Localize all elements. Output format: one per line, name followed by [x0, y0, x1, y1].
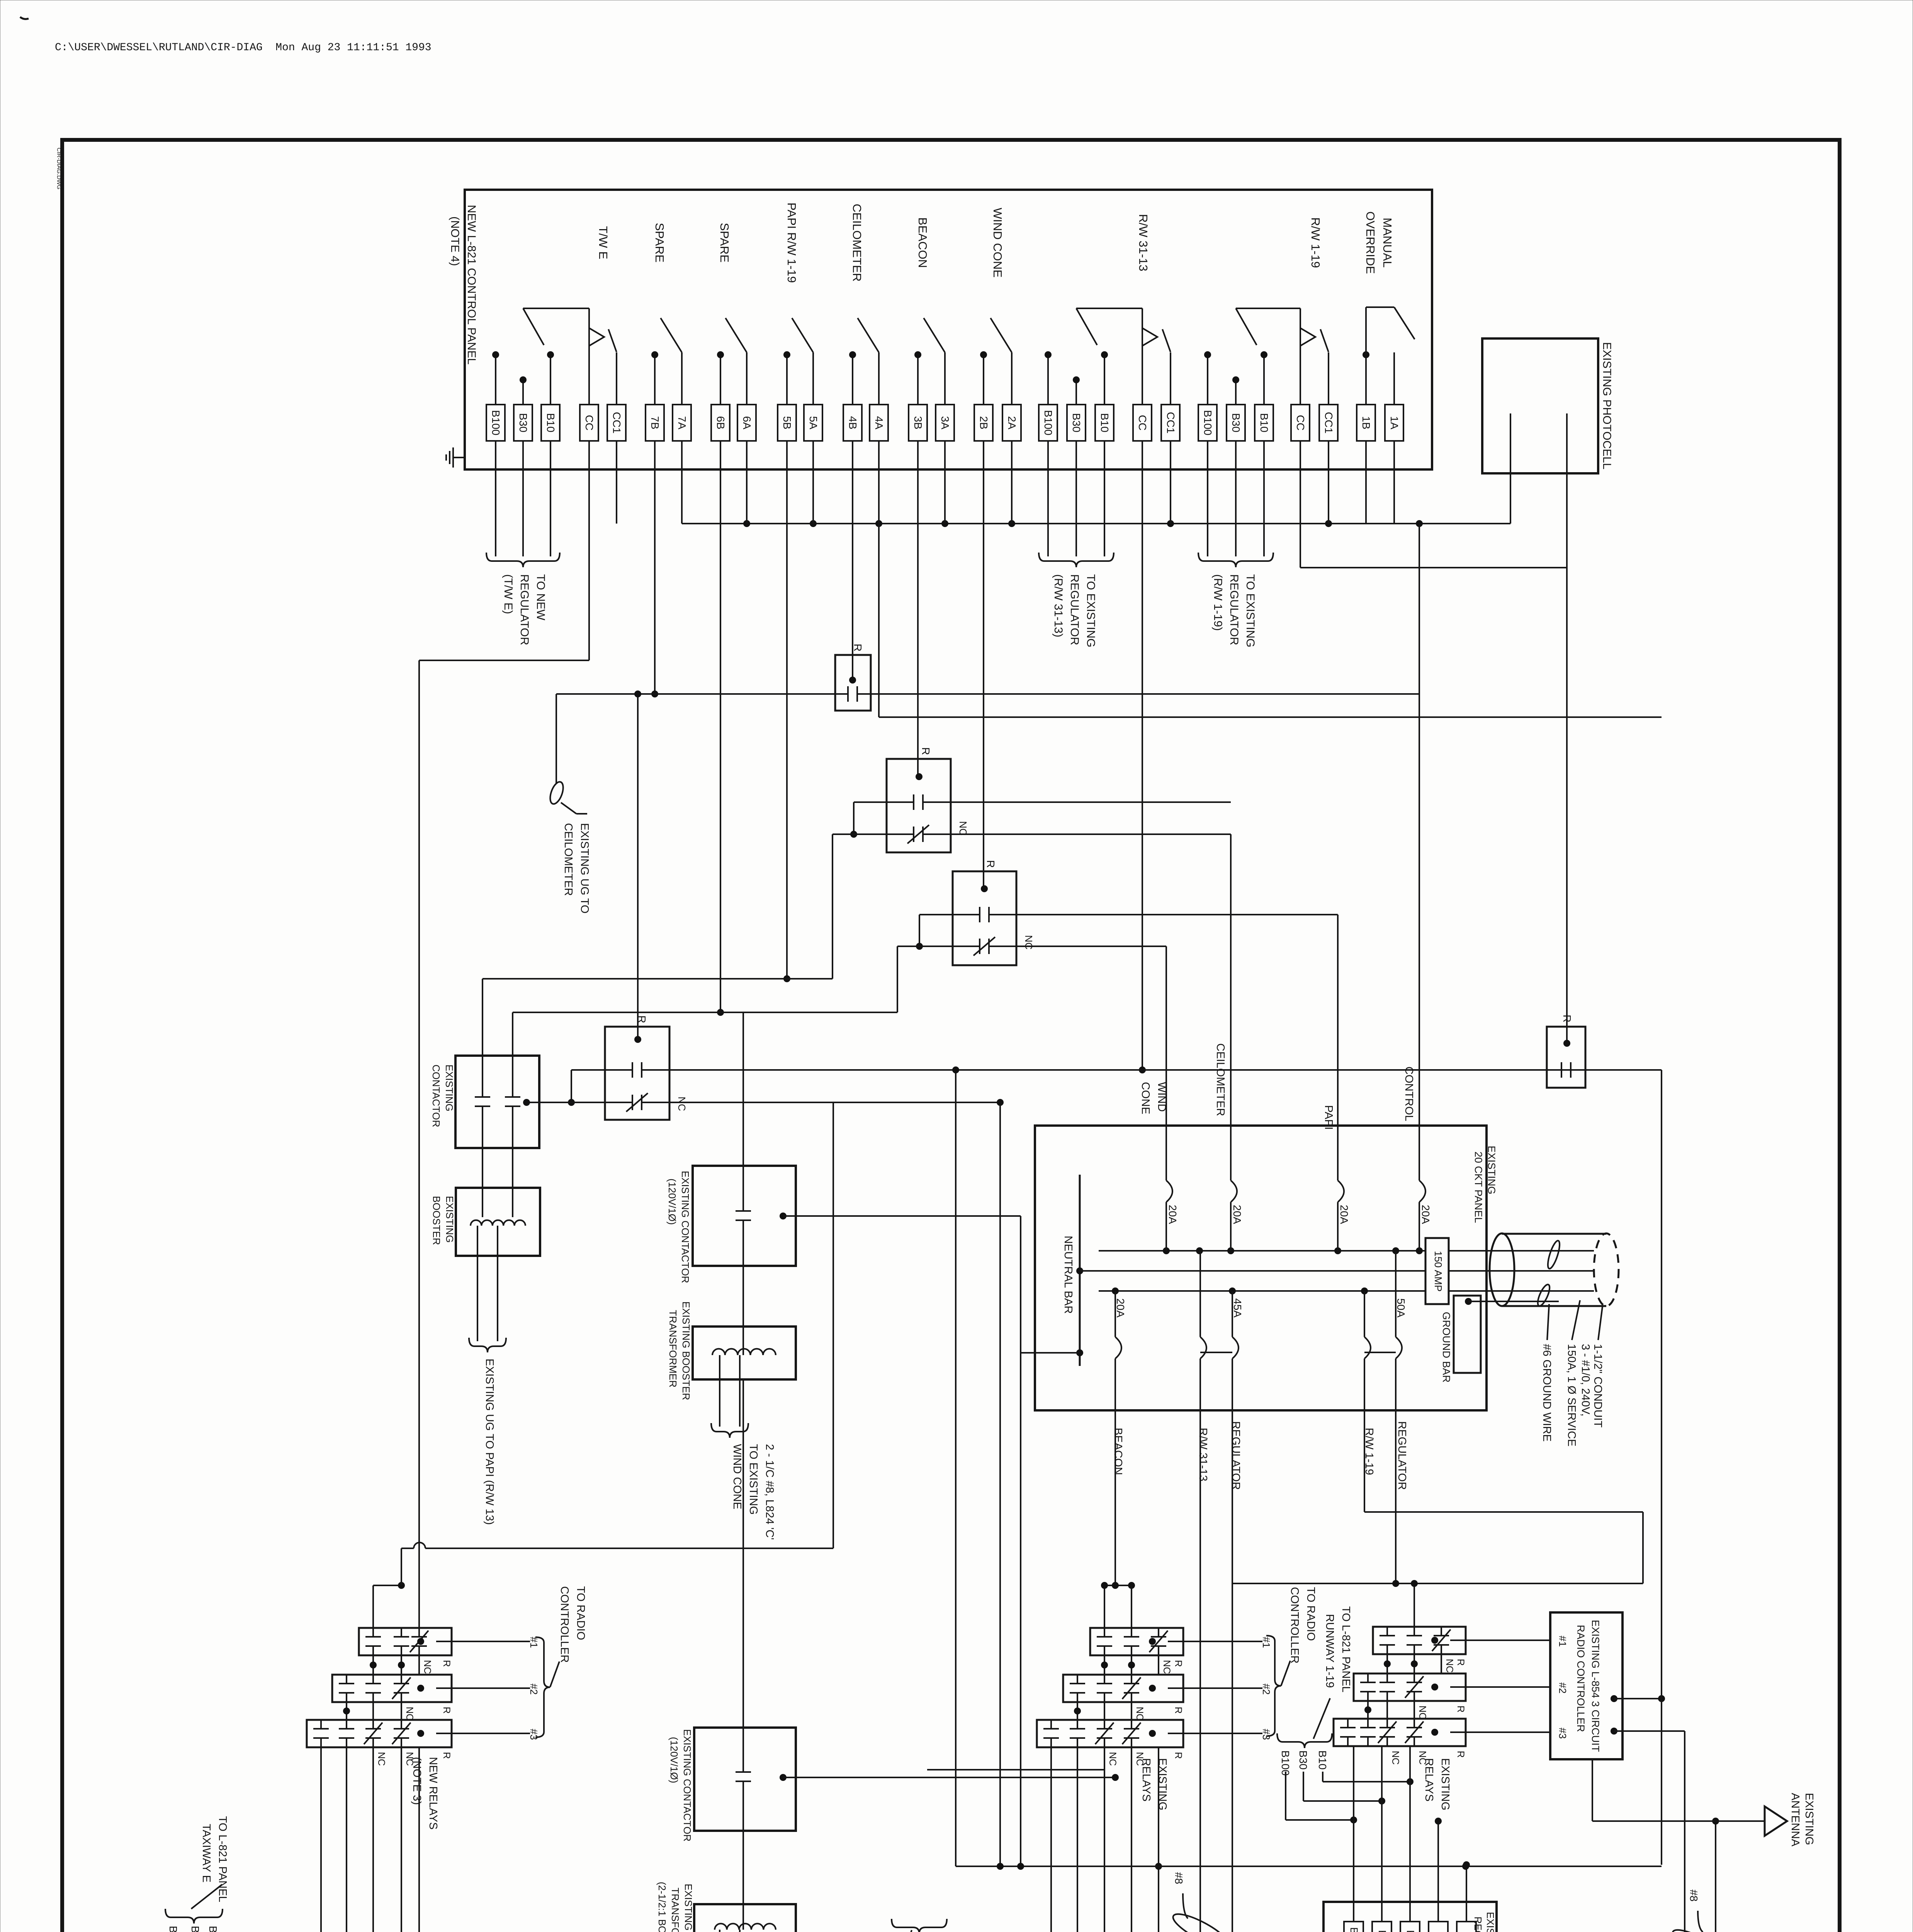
wire control from bus to panel	[1419, 524, 1420, 1180]
wire to radio #2 (c)	[1168, 1687, 1262, 1689]
svg-text:C:\USER\DWESSEL\RUTLAND\CIR-DI: C:\USER\DWESSEL\RUTLAND\CIR-DIAG Mon Aug…	[55, 42, 432, 54]
manual override pole	[1365, 307, 1367, 355]
stub x1354	[522, 380, 524, 405]
breaker feed x3674	[1419, 524, 1420, 1180]
feed H	[373, 1585, 401, 1586]
wire to contactor 120V	[742, 1012, 744, 1166]
contactor 2 contact	[742, 1728, 744, 1772]
ceilometer UG drop	[556, 694, 557, 784]
bus y2853	[669, 1102, 1000, 1103]
svg-text:3A: 3A	[939, 416, 951, 430]
terminal 2A	[1002, 405, 1021, 441]
cable brace 31-13	[1039, 553, 1114, 567]
breaker arc low x3107	[1200, 1337, 1206, 1359]
R3 NC contact	[953, 946, 980, 947]
wire N down	[418, 1747, 420, 1932]
radio antenna lead	[1592, 1759, 1593, 1821]
photocell lead to relay R5	[1566, 568, 1568, 1043]
bus A y1355	[682, 523, 1510, 524]
wire CC horizontal	[419, 660, 589, 661]
svg-text:150A, 1 Ø SERVICE: 150A, 1 Ø SERVICE	[1565, 1344, 1578, 1446]
new r2 output	[417, 1685, 424, 1692]
wire B10 31-13	[1104, 441, 1105, 556]
existing-c relay 1 box	[1090, 1628, 1183, 1655]
existing-r r2 output	[1431, 1684, 1438, 1690]
svg-text:R: R	[1173, 1752, 1184, 1759]
new stub	[372, 1702, 374, 1720]
svg-text:R: R	[1173, 1707, 1184, 1714]
wire in conduit 3	[1502, 1290, 1594, 1292]
leader conduit	[1598, 1307, 1602, 1340]
svg-text:#2: #2	[528, 1684, 540, 1695]
pointer #8 center	[1183, 1893, 1188, 1918]
booster out 2	[497, 1226, 498, 1341]
existing-r r3 output	[1431, 1729, 1438, 1736]
existing-r stub	[1414, 1654, 1415, 1673]
feed c r1 a	[1104, 1585, 1105, 1628]
terminal B30	[514, 405, 532, 441]
wire B30 1-19	[1235, 441, 1237, 556]
radio brace c	[1266, 1636, 1281, 1736]
svg-text:R: R	[441, 1660, 452, 1667]
CC stub 1-19	[1300, 308, 1301, 405]
wire contactor to neutral riser	[783, 1215, 1021, 1217]
ground bar box	[1454, 1296, 1481, 1373]
wire contactor2 to beacon wire	[783, 1777, 1115, 1778]
existing contactor box	[455, 1056, 539, 1148]
svg-text:R/W 31-13: R/W 31-13	[1137, 214, 1150, 271]
B100r drop	[1285, 1772, 1286, 1820]
relay R2 box	[887, 759, 951, 852]
svg-text:CC: CC	[1295, 415, 1306, 430]
existing L-812 regulator box	[1323, 1902, 1497, 1932]
svg-text:NC: NC	[1390, 1751, 1401, 1765]
svg-text:B10: B10	[1317, 1750, 1329, 1770]
svg-text:EXISTING BOOSTER: EXISTING BOOSTER	[680, 1301, 692, 1400]
4A tap down	[878, 524, 880, 717]
svg-text:NC: NC	[957, 821, 969, 836]
existing-r relay 2 box	[1354, 1673, 1466, 1701]
junction A-bus x2619	[1008, 520, 1015, 527]
terminal 3B	[909, 405, 927, 441]
new r3 output	[417, 1730, 424, 1737]
svg-text:CONTROL: CONTROL	[1403, 1066, 1415, 1121]
svg-text:TO NEW: TO NEW	[534, 574, 547, 621]
booster lead 2	[512, 1148, 513, 1217]
cable brace T/W E	[486, 553, 560, 567]
contactor feed 1	[482, 979, 483, 1056]
terminal B100	[1039, 405, 1057, 441]
existing contactor 120V box 2	[694, 1728, 796, 1831]
existing booster transformer 2 box	[694, 1904, 796, 1932]
R4 NO contact	[605, 1069, 632, 1071]
svg-text:(120V/1Ø): (120V/1Ø)	[668, 1737, 680, 1783]
breaker arc low x3532	[1364, 1337, 1371, 1359]
svg-text:RELAYS: RELAYS	[1140, 1758, 1152, 1801]
radio out node 2	[1611, 1728, 1617, 1735]
svg-text:MANUAL: MANUAL	[1381, 218, 1394, 267]
svg-text:4B: 4B	[847, 416, 859, 429]
wire CC1 31-13 down	[1170, 441, 1171, 524]
svg-text:B10: B10	[1405, 1930, 1416, 1932]
riser x2589	[999, 1102, 1001, 1866]
svg-text:EXISTING BOOSTER: EXISTING BOOSTER	[683, 1884, 694, 1932]
leader service	[1572, 1300, 1580, 1340]
svg-text:R: R	[1561, 1015, 1573, 1022]
R3 NC left wire	[897, 946, 953, 947]
new relay 3 box	[307, 1720, 452, 1747]
transformer 2 out 2	[739, 1930, 741, 1932]
svg-text:R: R	[852, 644, 864, 651]
wire R4 coil feed	[637, 694, 639, 1039]
svg-text:CC1: CC1	[1165, 412, 1177, 434]
svg-text:SPARE: SPARE	[653, 223, 666, 263]
cable marker #8 right	[1669, 1924, 1731, 1932]
existing contactor 120V box	[693, 1166, 796, 1266]
existing-r stub	[1386, 1701, 1388, 1719]
stub x2859	[1104, 355, 1105, 405]
terminal B30	[1067, 405, 1086, 441]
breaker arc x3463	[1338, 1180, 1344, 1202]
panel bus 3	[1099, 1290, 1425, 1292]
svg-text:6A: 6A	[741, 416, 753, 430]
svg-text:CONE: CONE	[1139, 1082, 1152, 1114]
chevron 31-13	[1142, 328, 1157, 346]
svg-text:(2-1/2:1 BOOST): (2-1/2:1 BOOST)	[656, 1882, 668, 1932]
svg-text:TO EXISTING: TO EXISTING	[747, 1444, 759, 1515]
svg-text:CONTROLLER: CONTROLLER	[1288, 1587, 1301, 1663]
terminal 7A	[673, 405, 691, 441]
stub x1865	[720, 355, 721, 405]
bus1 junction x3674	[1416, 1247, 1423, 1254]
CC1 stub	[616, 352, 617, 405]
svg-text:20 CKT PANEL: 20 CKT PANEL	[1473, 1151, 1484, 1223]
svg-text:B30: B30	[1376, 1930, 1388, 1932]
wire 1933A down	[746, 441, 748, 524]
50A breaker pole 2	[1395, 1251, 1397, 1337]
terminal N right reg	[1457, 1922, 1476, 1932]
svg-text:(R/W 1-19): (R/W 1-19)	[1211, 574, 1224, 631]
booster transformer 2 coil	[715, 1923, 776, 1930]
wire B100 31-13	[1047, 441, 1049, 556]
T/W E blade	[608, 329, 617, 352]
svg-text:EXISTING UG TO: EXISTING UG TO	[578, 823, 591, 913]
svg-text:B10: B10	[545, 413, 557, 432]
svg-text:20A: 20A	[1420, 1205, 1432, 1224]
svg-text:2A: 2A	[1006, 416, 1018, 430]
wire to radio #2 (new)	[436, 1687, 530, 1689]
svg-text:NEUTRAL BAR: NEUTRAL BAR	[1062, 1236, 1074, 1314]
R4 left link vert	[571, 1070, 572, 1102]
wire B30	[522, 441, 524, 556]
switch pole at x2619	[1011, 352, 1013, 405]
svg-text:B10: B10	[1099, 413, 1111, 432]
svg-text:7A: 7A	[676, 416, 688, 430]
R3 NO contact	[953, 914, 980, 915]
terminal B100 right reg	[1344, 1922, 1363, 1932]
wire to radio ctrl #2	[1450, 1686, 1550, 1688]
svg-text:PAPI R/W 1-19: PAPI R/W 1-19	[785, 202, 798, 283]
svg-text:EXISTING: EXISTING	[443, 1065, 455, 1111]
svg-text:B100: B100	[1042, 410, 1054, 435]
wire L-812 CC	[1437, 1821, 1439, 1922]
wire x2157 down	[832, 1102, 834, 1548]
svg-text:R: R	[1455, 1659, 1466, 1666]
R4 NC contact	[605, 1102, 632, 1103]
wire 50A pole1 down	[1364, 1410, 1365, 1512]
feed c r1 b	[1131, 1585, 1132, 1628]
svg-text:B30: B30	[517, 413, 529, 432]
wire CC long vertical to relay	[418, 660, 420, 1628]
wire r relay to L-812 x3650	[1409, 1746, 1411, 1922]
new r3 contacts	[320, 1720, 322, 1729]
existing-c r2 output	[1149, 1685, 1156, 1692]
wire r relay to L-812 x3504	[1353, 1746, 1354, 1922]
bus3 junction x3190	[1229, 1287, 1236, 1294]
service conduit	[1490, 1233, 1619, 1306]
existing-r relay 1 box	[1373, 1627, 1466, 1654]
svg-text:NC: NC	[676, 1097, 688, 1111]
wire across y4098	[1232, 1583, 1643, 1584]
svg-text:1A: 1A	[1388, 416, 1400, 430]
svg-text:(NOTE 3): (NOTE 3)	[411, 1757, 423, 1805]
breaker feed x3463	[1337, 915, 1339, 1180]
relay R1 box	[835, 655, 871, 711]
transformer feed	[742, 1266, 744, 1355]
svg-text:TO RADIO: TO RADIO	[574, 1586, 587, 1640]
R2 left link upper	[854, 801, 887, 803]
stub x2546	[983, 355, 984, 405]
existing-c r3 contacts	[1050, 1720, 1052, 1729]
svg-text:EXISTING: EXISTING	[1486, 1146, 1497, 1194]
wire c N down	[1158, 1747, 1159, 1932]
new stub	[401, 1655, 402, 1675]
terminal 4B	[843, 405, 862, 441]
pointer 31-13	[885, 1930, 912, 1932]
service wire 2	[1449, 1270, 1502, 1272]
CC1 stub 31-13	[1170, 352, 1171, 405]
svg-text:BEACON: BEACON	[916, 218, 929, 268]
existing-c r3 output	[1149, 1730, 1156, 1737]
new stub	[346, 1702, 347, 1720]
junction A-bus x2446	[941, 520, 948, 527]
panel bus 1	[1099, 1250, 1425, 1252]
T/W E chevron	[589, 328, 604, 346]
stub x2037	[786, 355, 788, 405]
wire 1A down	[1393, 441, 1395, 524]
svg-text:REGULATOR: REGULATOR	[1228, 574, 1240, 645]
svg-text:(NOTE 4): (NOTE 4)	[449, 216, 461, 266]
stub x3536	[1365, 355, 1367, 405]
svg-text:1-1/2" CONDUIT: 1-1/2" CONDUIT	[1592, 1344, 1604, 1428]
existing-r r1 contacts	[1386, 1627, 1388, 1636]
neutral bar tap 1	[1076, 1267, 1083, 1274]
feed left r1 a	[372, 1585, 374, 1628]
stub x3272	[1263, 355, 1265, 405]
svg-text:R: R	[985, 860, 997, 868]
new r2 contacts	[346, 1675, 347, 1684]
svg-text:#1: #1	[528, 1637, 540, 1648]
bus3 junction x3532	[1361, 1287, 1368, 1294]
svg-text:#1: #1	[1261, 1637, 1272, 1648]
terminal 7B	[646, 405, 664, 441]
ground bar tap	[1465, 1298, 1472, 1305]
junction A-bus x3674	[1416, 520, 1423, 527]
svg-text:WIND CONE: WIND CONE	[731, 1444, 743, 1509]
svg-text:4A: 4A	[873, 416, 885, 430]
R2 NC left wire	[832, 833, 887, 835]
existing antenna	[1765, 1806, 1787, 1836]
svg-text:CC: CC	[583, 415, 595, 430]
existing photocell box	[1482, 338, 1598, 473]
junction A-bus x3030	[1167, 520, 1174, 527]
switch pole at x2105	[812, 352, 814, 405]
existing L-854 radio controller box	[1550, 1612, 1622, 1759]
bus y4580	[927, 1769, 1104, 1770]
bus y1796 left of R1	[556, 693, 835, 695]
bus1 junction x3613	[1392, 1247, 1399, 1254]
R4 left link upper	[571, 1069, 605, 1071]
conduit wire marks	[1536, 1240, 1562, 1308]
radio out wire 2	[1614, 1730, 1685, 1732]
stub x3126	[1207, 355, 1208, 405]
brace taxiway E panel	[165, 1909, 223, 1923]
svg-text:BEACON: BEACON	[1112, 1428, 1124, 1475]
photocell right lead	[1566, 413, 1568, 568]
wire to radio #3 (new)	[436, 1733, 530, 1734]
relay R4 box	[605, 1027, 669, 1120]
wire to radio #1 (new)	[436, 1641, 530, 1642]
svg-text:REGULATOR: REGULATOR	[1472, 1917, 1484, 1932]
wire B100 to T/W E regulator	[495, 441, 496, 556]
wire relay to regulator x897	[346, 1747, 347, 1932]
existing-r r3 contacts	[1347, 1719, 1349, 1728]
wire 2619A down	[1011, 441, 1013, 524]
R3 left link vert	[919, 915, 920, 946]
wire relay to regulator x1039	[401, 1747, 402, 1932]
svg-text:NC: NC	[1134, 1707, 1145, 1721]
blade 31-13	[1162, 329, 1171, 352]
svg-text:#6 GROUND WIRE: #6 GROUND WIRE	[1541, 1344, 1553, 1442]
svg-text:TO EXISTING: TO EXISTING	[1244, 574, 1257, 647]
wire 3B to relay R2	[917, 441, 919, 777]
pointer taxiway E	[191, 1884, 222, 1909]
riser x4361	[1684, 1731, 1685, 1932]
new stub	[401, 1702, 402, 1720]
svg-text:R: R	[636, 1015, 648, 1023]
terminal B10 right reg	[1400, 1922, 1420, 1932]
contactor 120V contact	[742, 1166, 744, 1211]
contactor output node	[523, 1099, 530, 1106]
bus y4007	[425, 1548, 833, 1549]
svg-text:TO EXISTING: TO EXISTING	[1084, 574, 1097, 647]
wire from R3 NC down	[897, 946, 898, 1012]
new stub	[372, 1655, 374, 1675]
contactor 2 output node	[780, 1774, 787, 1781]
CC stub	[588, 308, 590, 405]
new r1 output	[417, 1638, 424, 1645]
breaker arc x3674	[1419, 1180, 1425, 1202]
50A breaker pole 1	[1364, 1291, 1365, 1337]
terminal CC right reg	[1429, 1922, 1448, 1932]
svg-text:TRANSFORMER: TRANSFORMER	[667, 1310, 679, 1388]
cable brace 1-19	[1198, 553, 1273, 567]
existing-c r2 contacts	[1077, 1675, 1078, 1684]
junction A-bus x3439	[1325, 520, 1332, 527]
terminal B100	[486, 405, 505, 441]
breaker arc low x3190	[1232, 1337, 1239, 1359]
transformer out 2	[739, 1355, 741, 1427]
svg-text:NC: NC	[1107, 1752, 1118, 1766]
existing-c r1 output	[1149, 1638, 1156, 1645]
svg-text:GROUND BAR: GROUND BAR	[1441, 1312, 1452, 1383]
chevron 1-19	[1300, 328, 1315, 346]
stub x1425	[550, 355, 551, 405]
svg-text:EXISTING PHOTOCELL: EXISTING PHOTOCELL	[1600, 342, 1613, 469]
stub x2376	[917, 355, 919, 405]
B30r drop	[1303, 1772, 1304, 1801]
wire r relay to L-812 x3577	[1381, 1746, 1383, 1922]
stub x2713	[1047, 355, 1049, 405]
R2 coil node	[916, 773, 923, 780]
R4 coil node	[634, 1036, 641, 1043]
CC stub 31-13	[1142, 308, 1143, 405]
terminal B30 right reg	[1372, 1922, 1391, 1932]
wire c relay to regulator x2789	[1077, 1747, 1078, 1932]
svg-text:TAXIWAY E: TAXIWAY E	[200, 1824, 212, 1883]
panel ground	[446, 447, 465, 468]
existing-c stub	[1158, 1655, 1159, 1675]
svg-text:NC: NC	[376, 1752, 387, 1766]
wire from R2 NC down	[832, 834, 833, 979]
svg-text:B30: B30	[1230, 413, 1242, 432]
R2 left link vert	[853, 802, 855, 834]
bus1 junction x3019	[1163, 1247, 1170, 1254]
brace runway 31-13	[892, 1919, 947, 1932]
R5 contact	[1547, 1069, 1561, 1071]
breaker arc x3186	[1231, 1180, 1237, 1202]
existing-c stub	[1104, 1702, 1105, 1720]
existing-c stub	[1104, 1655, 1105, 1675]
bus y2159	[951, 833, 1231, 835]
svg-text:2B: 2B	[978, 416, 990, 429]
new relay 2 box	[332, 1675, 452, 1702]
neutral bar tap 2	[1076, 1349, 1083, 1356]
radio out wire 1	[1614, 1698, 1662, 1699]
riser x2474	[955, 1070, 956, 1866]
45A breaker pole 2	[1232, 1291, 1233, 1337]
terminal CC	[1133, 405, 1152, 441]
svg-text:6B: 6B	[715, 416, 727, 429]
R2 NO contact	[887, 801, 914, 803]
ground wire to conduit	[1468, 1301, 1559, 1302]
booster coil	[471, 1220, 525, 1226]
wire CC down	[588, 441, 590, 660]
svg-text:(120V/1Ø): (120V/1Ø)	[666, 1179, 678, 1225]
relay R3 box	[953, 871, 1016, 965]
wire 6B down	[720, 441, 721, 1012]
existing-r stub	[1367, 1701, 1369, 1719]
feed c H	[1104, 1585, 1131, 1586]
svg-text:CEILOMETER: CEILOMETER	[562, 823, 574, 896]
bus1 junction x3463	[1334, 1247, 1341, 1254]
wire 2275A down	[878, 441, 880, 524]
bus y2620	[513, 1012, 897, 1013]
svg-text:OVERRIDE: OVERRIDE	[1364, 211, 1377, 274]
svg-text:R: R	[1455, 1751, 1466, 1758]
svg-text:50A: 50A	[1395, 1298, 1407, 1318]
svg-text:CONTROLLER: CONTROLLER	[558, 1586, 571, 1663]
